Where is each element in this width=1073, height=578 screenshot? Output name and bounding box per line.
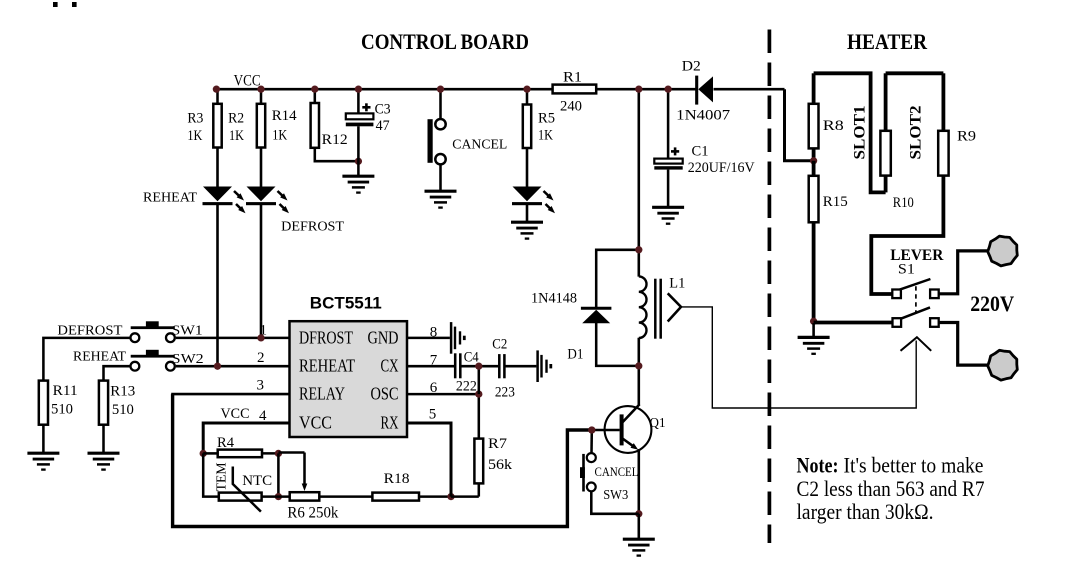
svg-text:C2 less than 563 and R7: C2 less than 563 and R7 <box>797 476 985 501</box>
svg-text:OSC: OSC <box>371 384 399 404</box>
svg-text:CANCEL: CANCEL <box>452 137 507 152</box>
svg-text:D2: D2 <box>682 59 701 75</box>
svg-text:240: 240 <box>560 98 582 114</box>
svg-text:1K: 1K <box>187 128 202 144</box>
svg-text:R7: R7 <box>488 436 508 452</box>
svg-text:HEATER: HEATER <box>847 29 928 54</box>
svg-text:TEM: TEM <box>215 462 230 492</box>
svg-text:RELAY: RELAY <box>299 384 345 404</box>
svg-text:REHEAT: REHEAT <box>73 350 126 365</box>
svg-text:SLOT2: SLOT2 <box>908 106 925 160</box>
svg-text:R4: R4 <box>217 435 234 451</box>
svg-text:C3: C3 <box>375 102 391 118</box>
svg-text:L1: L1 <box>669 275 685 291</box>
svg-text:REHEAT: REHEAT <box>299 356 355 376</box>
svg-text:R8: R8 <box>823 118 844 134</box>
svg-text:DFROST: DFROST <box>299 327 353 347</box>
svg-text:47: 47 <box>376 118 390 134</box>
svg-text:R15: R15 <box>823 194 848 210</box>
svg-text:R3: R3 <box>187 110 203 126</box>
svg-text:1N4148: 1N4148 <box>531 291 577 307</box>
svg-text:220UF/16V: 220UF/16V <box>688 160 755 176</box>
svg-text:223: 223 <box>495 385 515 401</box>
svg-text:SW1: SW1 <box>172 324 203 339</box>
svg-text:SW3: SW3 <box>603 488 628 503</box>
svg-text:R11: R11 <box>53 383 78 399</box>
svg-text:R18: R18 <box>384 471 410 487</box>
svg-text:C2: C2 <box>492 337 507 353</box>
svg-text:C1: C1 <box>692 143 709 159</box>
svg-text:R12: R12 <box>322 132 348 148</box>
svg-text:56k: 56k <box>488 457 513 473</box>
svg-text:R13: R13 <box>110 383 135 399</box>
svg-text:R10: R10 <box>893 195 914 211</box>
svg-text:RX: RX <box>381 412 399 432</box>
svg-text:VCC: VCC <box>221 406 250 422</box>
svg-text:222: 222 <box>456 379 477 395</box>
svg-text:R14: R14 <box>272 108 297 124</box>
svg-text:REHEAT: REHEAT <box>143 190 197 205</box>
svg-text:220V: 220V <box>970 291 1014 316</box>
svg-text:1N4007: 1N4007 <box>676 108 731 124</box>
svg-text:CANCEL: CANCEL <box>595 464 639 479</box>
svg-text:SW2: SW2 <box>172 352 204 367</box>
svg-text:R1: R1 <box>563 70 582 86</box>
svg-text:S1: S1 <box>898 262 915 278</box>
svg-text:R5: R5 <box>538 110 555 126</box>
svg-text:C4: C4 <box>464 350 479 366</box>
svg-text:1K: 1K <box>272 127 287 143</box>
svg-text:DEFROST: DEFROST <box>281 219 344 234</box>
svg-text:Note:: Note: <box>797 453 839 478</box>
svg-text:3: 3 <box>257 378 265 394</box>
svg-text:SLOT1: SLOT1 <box>852 106 869 160</box>
svg-text:1K: 1K <box>229 128 244 144</box>
svg-text:510: 510 <box>112 402 134 418</box>
svg-text:R9: R9 <box>957 129 976 145</box>
svg-text:2: 2 <box>257 350 265 366</box>
svg-text:VCC: VCC <box>299 412 332 432</box>
svg-text:NTC: NTC <box>242 473 272 489</box>
svg-text:larger than 30kΩ.: larger than 30kΩ. <box>797 499 934 524</box>
svg-text:DEFROST: DEFROST <box>57 323 122 338</box>
svg-text:510: 510 <box>51 401 73 417</box>
svg-text:5: 5 <box>429 407 437 423</box>
svg-text:D1: D1 <box>567 346 583 362</box>
svg-text:R6 250k: R6 250k <box>287 505 338 522</box>
svg-text:1K: 1K <box>538 127 553 143</box>
svg-text:VCC: VCC <box>234 73 261 90</box>
svg-text:GND: GND <box>368 327 399 347</box>
svg-text:CX: CX <box>381 356 399 376</box>
svg-text:CONTROL BOARD: CONTROL BOARD <box>361 29 529 54</box>
svg-text:It's better to make: It's better to make <box>844 453 984 478</box>
svg-text:Q1: Q1 <box>650 416 666 431</box>
svg-text:BCT5511: BCT5511 <box>310 294 382 313</box>
svg-text:R2: R2 <box>228 110 244 126</box>
